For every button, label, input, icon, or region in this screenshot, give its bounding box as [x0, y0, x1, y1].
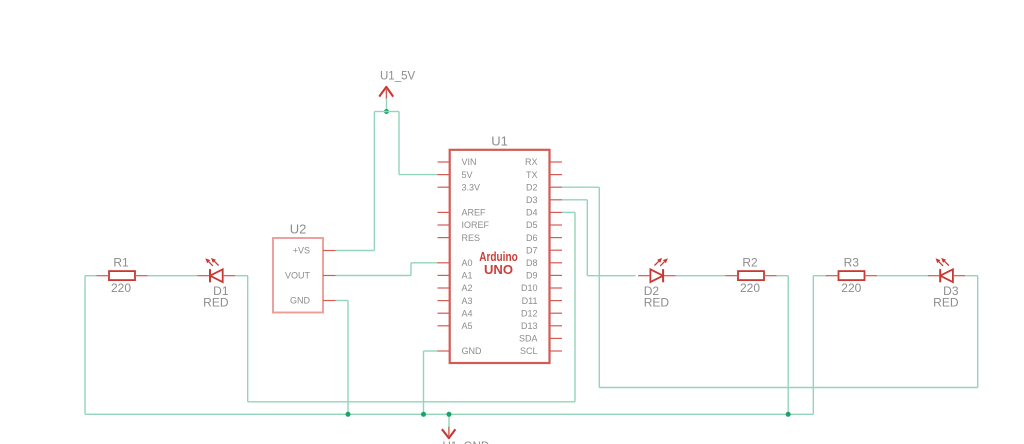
wire R2 down to bus	[787, 276, 789, 415]
svg-text:D5: D5	[526, 220, 538, 230]
power flag U1_5V	[379, 87, 393, 99]
svg-text:R3: R3	[844, 255, 860, 269]
ground flag U1_GND	[442, 426, 456, 438]
wire D3 net down	[586, 200, 588, 276]
wire ground bus	[85, 413, 813, 415]
pin stubs R1	[97, 275, 148, 277]
regulator U2 body	[273, 238, 323, 313]
svg-text:D11: D11	[522, 296, 538, 306]
pin stubs R2	[726, 275, 777, 277]
wire into U2 +VS	[336, 250, 375, 252]
svg-text:220: 220	[111, 281, 131, 295]
pin A0 (U1 left)	[438, 258, 473, 268]
svg-text:220: 220	[841, 281, 861, 295]
pin stubs D2	[638, 275, 676, 277]
pin A1 (U1 left)	[438, 271, 473, 281]
svg-text:SCL: SCL	[520, 346, 538, 356]
wire into D3 LED	[965, 275, 978, 277]
svg-text:VOUT: VOUT	[285, 271, 311, 281]
wire up to D4	[574, 212, 576, 401]
IC U1 (Arduino UNO body)	[450, 150, 550, 363]
wire into U1 A0	[411, 262, 438, 264]
pin SDA (U1 right)	[519, 334, 562, 344]
svg-text:220: 220	[740, 281, 760, 295]
svg-text:UNO: UNO	[484, 263, 513, 277]
pin +VS (U2)	[293, 246, 336, 256]
wire 5V node to U2 +VS (vert)	[373, 112, 375, 251]
wire bus to R3 (horiz)	[813, 275, 827, 277]
wire U1 GND (horiz)	[424, 350, 438, 352]
pin GND (U2)	[290, 296, 336, 306]
pin A5 (U1 left)	[438, 321, 473, 331]
svg-text:D3: D3	[526, 195, 538, 205]
wire 5V node to U2 +VS (horiz)	[374, 111, 386, 113]
svg-text:U1: U1	[491, 133, 508, 148]
wire into U1 5V pin	[399, 174, 438, 176]
wire D1 to D4 (horiz)	[248, 401, 575, 403]
label Arduino UNO	[479, 250, 518, 277]
pin RX (U1 right)	[525, 157, 562, 167]
svg-text:A0: A0	[462, 258, 473, 268]
pin A4 (U1 left)	[438, 308, 473, 318]
svg-text:R1: R1	[113, 255, 129, 269]
pin D11 (U1 right)	[522, 296, 562, 306]
wire R1 to D1	[148, 275, 198, 277]
pin RES (U1 left)	[438, 233, 481, 243]
resistor R3	[839, 271, 865, 280]
pin D6 (U1 right)	[526, 233, 562, 243]
svg-text:D4: D4	[526, 208, 538, 218]
wire (GND flag stem)	[448, 414, 450, 427]
pin SCL (U1 right)	[520, 346, 562, 356]
wire U2 VOUT (horiz)	[336, 275, 412, 277]
svg-text:RED: RED	[203, 296, 229, 310]
svg-text:VIN: VIN	[462, 157, 477, 167]
pin 3.3V (U1 left)	[438, 182, 481, 192]
pin TX (U1 right)	[526, 170, 562, 180]
wire R2 right	[777, 275, 789, 277]
svg-text:RES: RES	[462, 233, 481, 243]
pin VIN (U1 left)	[438, 157, 477, 167]
emission arrows D2	[655, 258, 668, 266]
svg-text:A2: A2	[462, 283, 473, 293]
emission arrows D1	[205, 258, 218, 266]
pin 5V (U1 left)	[438, 170, 473, 180]
svg-text:3.3V: 3.3V	[462, 182, 481, 192]
wire from U1 D3	[562, 199, 587, 201]
pin stubs D3	[928, 275, 966, 277]
wire R1 left down	[84, 276, 86, 415]
svg-text:SDA: SDA	[519, 334, 538, 344]
svg-text:D9: D9	[526, 271, 538, 281]
wire from U1 D2	[562, 186, 599, 188]
svg-text:A4: A4	[462, 308, 473, 318]
svg-text:A5: A5	[462, 321, 473, 331]
LED D3	[940, 269, 953, 282]
junction U2 GND	[346, 412, 351, 417]
junction (5V node)	[384, 109, 389, 114]
wire D1 right	[235, 275, 248, 277]
pin stubs D1	[198, 275, 236, 277]
pin D7 (U1 right)	[526, 245, 562, 255]
pin stubs R3	[826, 275, 877, 277]
svg-text:D12: D12	[521, 308, 538, 318]
wire D1 down	[247, 276, 249, 402]
pin D2 (U1 right)	[526, 182, 562, 192]
svg-text:TX: TX	[526, 170, 538, 180]
pin A3 (U1 left)	[438, 296, 473, 306]
wire bus to R3 (vert)	[812, 276, 814, 415]
svg-text:D2: D2	[526, 182, 538, 192]
wire into U1 D4	[562, 211, 575, 213]
wire 5V node to U1 5V (vert)	[398, 112, 400, 175]
junction GND flag	[447, 412, 452, 417]
resistor R2	[738, 271, 764, 280]
svg-text:AREF: AREF	[462, 208, 487, 218]
svg-text:RX: RX	[525, 157, 538, 167]
pin D10 (U1 right)	[521, 283, 562, 293]
svg-text:IOREF: IOREF	[462, 220, 490, 230]
wire D2 net down	[598, 187, 600, 387]
svg-text:5V: 5V	[462, 170, 473, 180]
pin D12 (U1 right)	[521, 308, 562, 318]
svg-text:RED: RED	[644, 296, 670, 310]
wire D2 net across	[599, 387, 977, 389]
svg-text:A3: A3	[462, 296, 473, 306]
pin A2 (U1 left)	[438, 283, 473, 293]
svg-text:D13: D13	[521, 321, 538, 331]
wire U2 GND down	[347, 301, 349, 415]
pin IOREF (U1 left)	[438, 220, 490, 230]
pin GND (U1 left)	[438, 346, 483, 356]
wire D3 net to D2 LED	[587, 275, 635, 277]
pin D3 (U1 right)	[526, 195, 562, 205]
LED D1	[210, 269, 223, 282]
wire U2 VOUT to A0 (vert)	[410, 263, 412, 276]
wire D2 net up	[977, 276, 979, 388]
svg-text:R2: R2	[742, 255, 758, 269]
junction U1 GND	[421, 412, 426, 417]
wire into R1 left	[85, 275, 97, 277]
svg-text:D6: D6	[526, 233, 538, 243]
pin VOUT (U2)	[285, 271, 336, 281]
svg-text:D10: D10	[521, 283, 538, 293]
resistor R1	[109, 271, 135, 280]
svg-text:+VS: +VS	[293, 246, 310, 256]
wire R3 to D3	[877, 275, 928, 277]
wire U2 GND (horiz)	[336, 300, 349, 302]
wire U1 GND down	[423, 351, 425, 414]
junction R2	[786, 412, 791, 417]
emission arrows D3	[936, 258, 949, 266]
pin D13 (U1 right)	[521, 321, 562, 331]
pin D4 (U1 right)	[526, 208, 562, 218]
pin D5 (U1 right)	[526, 220, 562, 230]
wire D2 LED to R2	[676, 275, 726, 277]
svg-text:D7: D7	[526, 245, 538, 255]
svg-text:A1: A1	[462, 271, 473, 281]
svg-text:GND: GND	[462, 346, 483, 356]
wire 5V node to U1 5V (horiz)	[387, 111, 400, 113]
svg-text:D8: D8	[526, 258, 538, 268]
svg-text:RED: RED	[933, 296, 959, 310]
wire (5V flag stem)	[386, 99, 388, 112]
svg-text:U2: U2	[290, 222, 307, 237]
pin D8 (U1 right)	[526, 258, 562, 268]
svg-text:GND: GND	[290, 296, 311, 306]
pin D9 (U1 right)	[526, 271, 562, 281]
svg-text:U1_5V: U1_5V	[380, 70, 415, 82]
LED D2	[650, 269, 663, 282]
pin AREF (U1 left)	[438, 208, 487, 218]
